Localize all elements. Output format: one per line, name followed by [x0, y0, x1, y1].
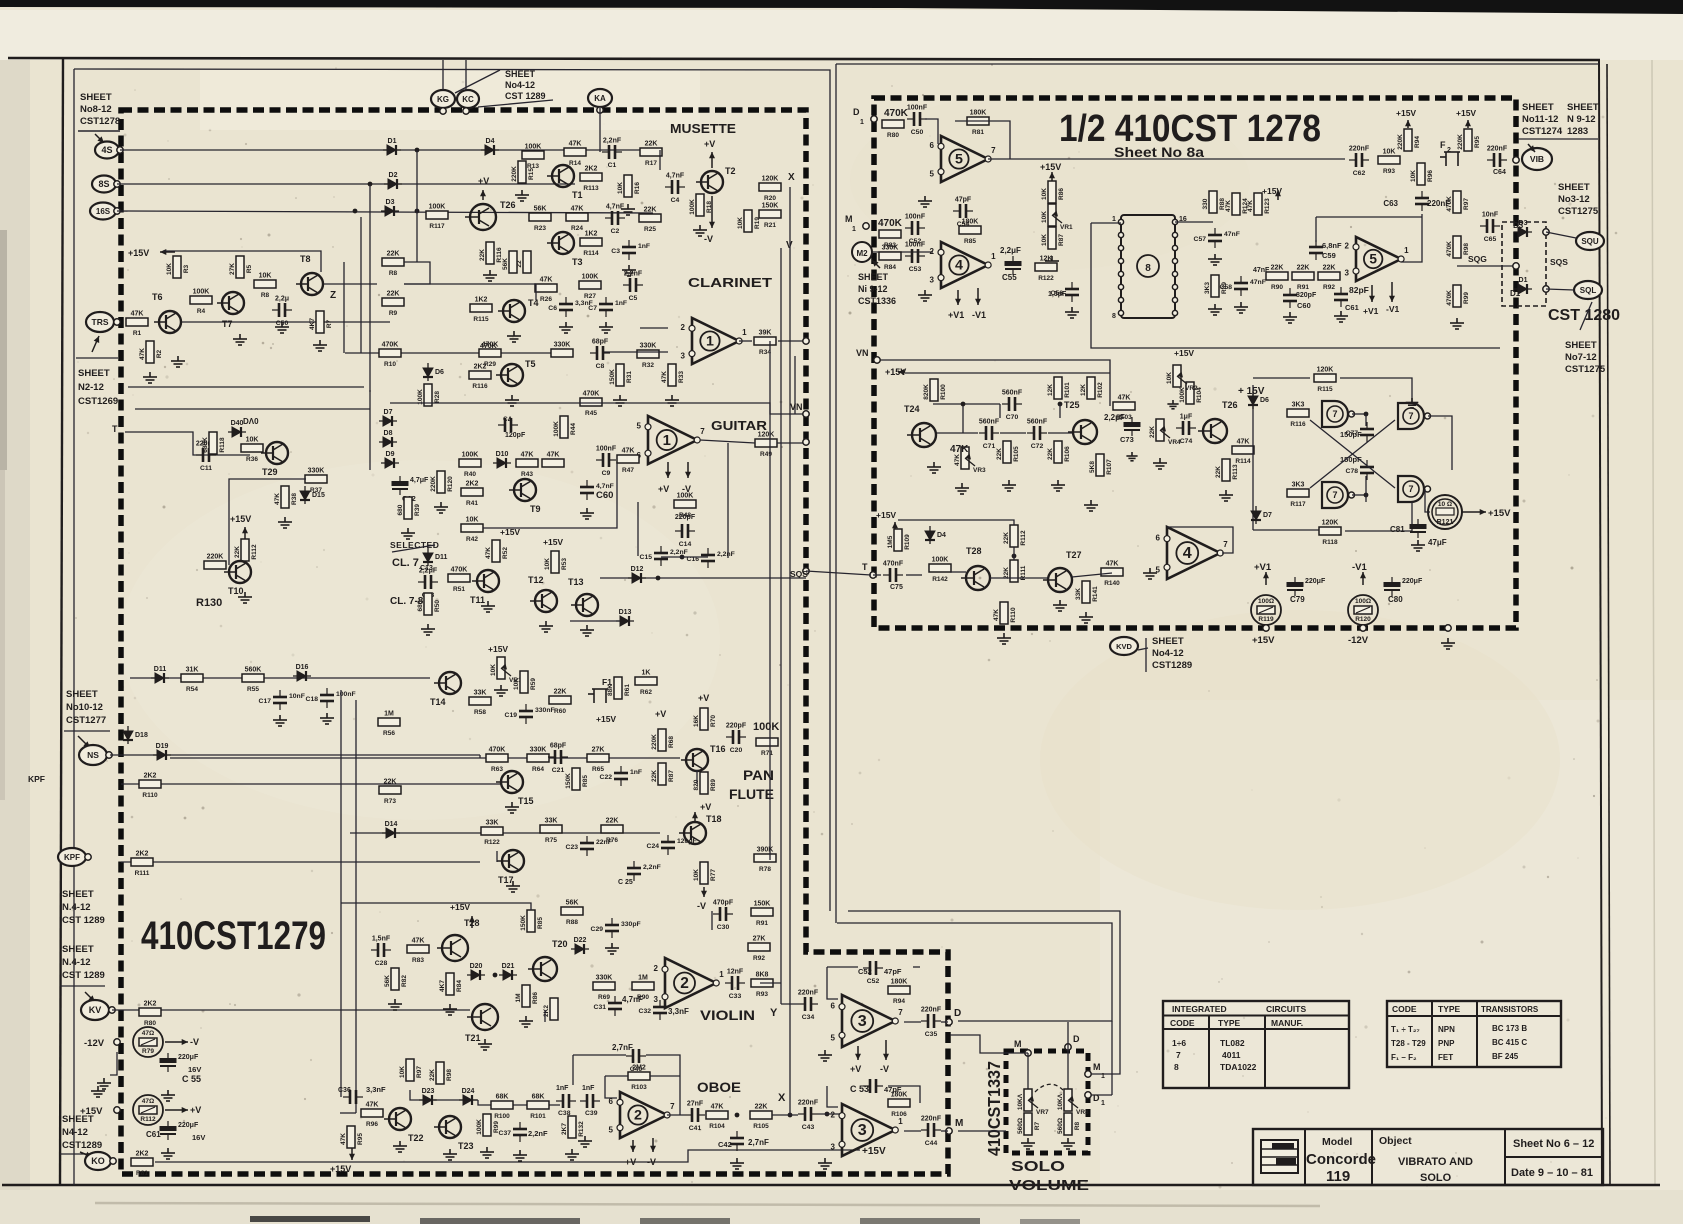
svg-text:R85: R85 [964, 238, 976, 245]
wire [1145, 638, 1147, 672]
svg-text:Sheet Nо 6 – 12: Sheet Nо 6 – 12 [1513, 1138, 1594, 1150]
ground [507, 331, 521, 342]
svg-text:T9: T9 [530, 504, 541, 514]
svg-text:KPF: KPF [64, 853, 80, 862]
svg-text:R21: R21 [764, 222, 776, 229]
resistor R39 [397, 497, 421, 519]
svg-text:10K: 10K [466, 517, 479, 524]
arrow -V [652, 1138, 654, 1152]
resistor R33 [661, 364, 685, 386]
resistor R94 [1397, 129, 1421, 151]
svg-text:+V: +V [478, 176, 489, 186]
svg-text:T27: T27 [1066, 550, 1082, 560]
svg-text:1nF: 1nF [556, 1085, 569, 1092]
resistor R101 [527, 1094, 549, 1121]
svg-text:7: 7 [1408, 411, 1413, 421]
svg-text:7: 7 [898, 1008, 903, 1017]
svg-text:120K: 120K [1322, 520, 1339, 527]
svg-text:-12V: -12V [1348, 635, 1369, 646]
node [1118, 232, 1123, 237]
arrow [95, 134, 104, 143]
svg-text:220K: 220K [207, 554, 224, 561]
wire [637, 502, 639, 556]
transistor T25 [1064, 400, 1097, 444]
ground [238, 592, 252, 603]
diode D13 [616, 616, 634, 626]
svg-text:R45: R45 [585, 410, 597, 417]
node [597, 107, 603, 113]
capacitor C40 [626, 1049, 646, 1063]
wire [659, 150, 661, 170]
junction [415, 209, 420, 214]
resistor R77 [693, 862, 717, 884]
resistor R29 [479, 342, 501, 369]
svg-text:R93: R93 [1383, 168, 1395, 175]
junction [788, 1113, 793, 1118]
trimmer VR4 [1149, 419, 1181, 446]
capacitor C1 [602, 145, 622, 159]
svg-text:D16: D16 [296, 664, 309, 671]
resistor R8 [382, 251, 404, 278]
svg-text:47μF: 47μF [1428, 538, 1447, 547]
capacitor [883, 568, 903, 582]
svg-text:1μF: 1μF [1180, 414, 1193, 421]
svg-text:22K: 22K [234, 546, 241, 558]
node [1172, 219, 1177, 224]
svg-text:330K: 330K [882, 245, 899, 252]
svg-text:R89: R89 [710, 779, 717, 791]
svg-text:T8: T8 [300, 254, 311, 264]
transistor T26 [1198, 400, 1238, 443]
capacitor C17 [273, 690, 287, 710]
svg-text:M2: M2 [856, 249, 868, 258]
svg-text:2,2nF: 2,2nF [717, 551, 735, 558]
svg-text:3: 3 [858, 1121, 867, 1139]
svg-text:T7: T7 [222, 319, 233, 329]
wire [941, 1021, 948, 1023]
svg-text:R27: R27 [584, 293, 596, 300]
svg-text:1nF: 1nF [638, 243, 650, 250]
svg-text:CLARINET: CLARINET [688, 275, 772, 290]
capacitor C57 [1208, 228, 1222, 248]
wire [1091, 222, 1121, 224]
svg-text:220nF: 220nF [1487, 146, 1508, 153]
resistor R49 [755, 432, 777, 459]
wire [404, 262, 430, 284]
svg-text:22K: 22K [1149, 426, 1156, 438]
dashed border 410CST1279 box [121, 110, 948, 1174]
ground [481, 601, 495, 612]
resistor R100 [491, 1094, 513, 1121]
svg-text:1M: 1M [384, 711, 394, 718]
svg-text:47K: 47K [622, 448, 635, 455]
svg-text:+15V: +15V [1488, 508, 1511, 519]
wire [913, 966, 920, 968]
svg-text:R91: R91 [1297, 284, 1309, 291]
dashed coupling arc [1035, 1084, 1063, 1092]
resistor R54 [181, 667, 203, 694]
svg-text:-V: -V [647, 1157, 656, 1167]
svg-text:119: 119 [1326, 1168, 1350, 1185]
node [1118, 219, 1123, 224]
resistor R89 [1204, 275, 1228, 297]
wire [1352, 413, 1366, 415]
resistor R21 [759, 203, 781, 230]
svg-text:MANUF.: MANUF. [1271, 1018, 1303, 1028]
svg-text:16S: 16S [96, 207, 111, 216]
wire [60, 985, 105, 987]
svg-text:R92: R92 [1323, 284, 1335, 291]
capacitor [1410, 519, 1426, 538]
svg-text:150K: 150K [609, 369, 616, 385]
connector KV [81, 1000, 109, 1020]
svg-text:MUSETTE: MUSETTE [670, 121, 736, 136]
svg-text:820K: 820K [923, 384, 930, 400]
resistor R85 [565, 768, 589, 790]
svg-text:10K: 10K [1166, 372, 1173, 384]
wire 8S row [117, 183, 575, 185]
svg-text:R120: R120 [1355, 616, 1371, 623]
svg-text:47K: 47K [1237, 439, 1250, 446]
svg-text:T11: T11 [470, 595, 485, 605]
svg-text:R8: R8 [261, 292, 270, 299]
svg-text:470K: 470K [1446, 290, 1453, 306]
ground [1441, 638, 1455, 649]
svg-text:T15: T15 [518, 796, 534, 806]
svg-text:100Ω: 100Ω [1355, 598, 1371, 605]
ground [955, 483, 969, 494]
transistor T2 [696, 166, 736, 193]
ground [505, 802, 519, 813]
svg-text:10nF: 10nF [289, 693, 305, 700]
svg-text:R87: R87 [1058, 234, 1065, 246]
svg-text:1: 1 [1112, 216, 1116, 223]
svg-text:10K: 10K [1041, 211, 1048, 223]
wire [727, 443, 729, 558]
svg-text:C34: C34 [802, 1014, 815, 1021]
ground [599, 322, 613, 333]
svg-text:N4-12: N4-12 [62, 1127, 88, 1138]
node [1085, 1071, 1091, 1077]
svg-text:R111: R111 [135, 870, 150, 877]
transistor F [1440, 152, 1460, 166]
capacitor C24 [661, 835, 675, 855]
svg-text:R114: R114 [583, 250, 599, 257]
svg-text:3K3: 3K3 [1292, 482, 1305, 489]
wire [777, 442, 806, 444]
wire stub b [416, 150, 418, 262]
svg-text:R62: R62 [640, 689, 652, 696]
svg-text:D21: D21 [502, 963, 515, 970]
svg-text:220K: 220K [1397, 134, 1404, 150]
wire [906, 574, 922, 576]
wire [60, 1153, 104, 1155]
wire [1090, 1094, 1112, 1096]
capacitor C52 [905, 221, 925, 235]
resistor R42 [461, 517, 483, 544]
svg-text:-V1: -V1 [1386, 304, 1400, 314]
svg-text:C13: C13 [420, 565, 433, 572]
svg-text:C35: C35 [925, 1031, 938, 1038]
svg-text:TL082: TL082 [1220, 1038, 1245, 1048]
svg-text:+15V: +15V [596, 714, 616, 724]
node [1172, 258, 1177, 263]
node [1172, 310, 1177, 315]
svg-text:1M: 1M [515, 993, 522, 1002]
svg-text:T14: T14 [430, 697, 446, 707]
svg-text:10KΛ: 10KΛ [1057, 1093, 1064, 1110]
svg-text:180K: 180K [891, 1092, 908, 1099]
resistor R96 [361, 1102, 383, 1129]
ground [622, 265, 636, 276]
svg-text:560K: 560K [245, 667, 262, 674]
svg-text:150K: 150K [520, 915, 527, 931]
svg-text:R103: R103 [1116, 414, 1132, 421]
svg-text:12K: 12K [1047, 384, 1054, 396]
svg-text:1: 1 [860, 119, 864, 126]
arrow +V1 [957, 290, 959, 305]
node [1172, 245, 1177, 250]
svg-text:1K2: 1K2 [475, 297, 488, 304]
svg-text:R33: R33 [678, 371, 685, 383]
svg-text:SQS: SQS [790, 569, 808, 579]
svg-text:SHEET: SHEET [80, 92, 112, 103]
svg-text:10K: 10K [1383, 149, 1396, 156]
svg-text:47K: 47K [954, 454, 961, 466]
svg-text:CST1274: CST1274 [1522, 126, 1563, 137]
node [1513, 157, 1519, 163]
svg-text:+V1: +V1 [1363, 306, 1379, 316]
svg-text:R115: R115 [473, 316, 489, 323]
capacitor C71 [979, 426, 999, 440]
svg-text:T22: T22 [408, 1133, 424, 1143]
svg-text:47K: 47K [1106, 561, 1119, 568]
svg-text:T: T [112, 424, 118, 434]
svg-text:R3: R3 [183, 264, 190, 273]
svg-text:R20: R20 [764, 195, 776, 202]
svg-text:47K: 47K [139, 348, 146, 360]
svg-text:R96: R96 [1427, 170, 1434, 182]
svg-text:-V: -V [190, 1037, 199, 1047]
wire [818, 1113, 842, 1115]
ground [388, 999, 402, 1010]
node [1118, 284, 1123, 289]
svg-text:OBOE: OBOE [697, 1079, 741, 1095]
capacitor C18 [320, 688, 334, 708]
svg-text:FLUTE: FLUTE [729, 787, 774, 802]
node [1445, 625, 1451, 631]
svg-text:D15: D15 [312, 492, 325, 499]
svg-text:47K: 47K [1118, 395, 1131, 402]
svg-text:R54: R54 [186, 686, 198, 693]
wire [1253, 529, 1330, 531]
svg-text:R24: R24 [571, 225, 583, 232]
svg-text:+V1: +V1 [948, 310, 964, 320]
resistor R94 [888, 979, 910, 1006]
svg-text:C23: C23 [566, 844, 579, 851]
svg-text:-V: -V [704, 234, 713, 244]
wire [711, 911, 713, 930]
ground [91, 1086, 105, 1097]
resistor R93 [1378, 149, 1400, 176]
resistor R41 [461, 481, 483, 508]
capacitor C32 [653, 1000, 667, 1020]
svg-text:7: 7 [670, 1102, 675, 1111]
svg-text:5: 5 [1369, 251, 1377, 266]
capacitor C50 [907, 112, 927, 126]
capacitor C9 [596, 453, 616, 467]
svg-text:C44: C44 [925, 1140, 938, 1147]
svg-text:INTEGRATED: INTEGRATED [1172, 1004, 1227, 1014]
resistor R110 [139, 773, 161, 800]
capacitor C74 [1176, 421, 1196, 435]
svg-text:100K: 100K [476, 1119, 483, 1135]
capacitor [1487, 153, 1507, 167]
ground [434, 502, 448, 513]
svg-text:47K: 47K [547, 452, 560, 459]
svg-text:47K: 47K [569, 141, 582, 148]
svg-text:R105: R105 [1013, 446, 1020, 462]
svg-text:+15V: +15V [862, 1146, 886, 1157]
svg-text:7: 7 [991, 146, 996, 155]
svg-text:3K3: 3K3 [1292, 402, 1305, 409]
svg-text:-V: -V [697, 901, 706, 911]
svg-text:10K: 10K [617, 182, 624, 194]
svg-text:D6: D6 [1260, 397, 1269, 404]
ground [1045, 256, 1059, 267]
capacitor C33 [725, 976, 745, 990]
wire D1 riser [1111, 1021, 1113, 1095]
transistor T7 [217, 292, 244, 329]
svg-text:F: F [1440, 140, 1446, 150]
svg-text:150K: 150K [762, 203, 779, 210]
resistor R47 [617, 448, 639, 475]
wire [455, 70, 500, 93]
wire [999, 404, 1001, 418]
svg-text:1283: 1283 [1567, 126, 1588, 137]
resistor R88 [1202, 191, 1226, 213]
capacitor [580, 1094, 600, 1108]
node [1085, 1092, 1091, 1098]
svg-text:220nF: 220nF [921, 1007, 942, 1014]
svg-text:C59: C59 [1322, 251, 1336, 260]
resistor R64 [527, 747, 549, 774]
svg-text:R16: R16 [634, 182, 641, 194]
svg-text:22K: 22K [996, 448, 1003, 460]
svg-text:T5: T5 [525, 359, 536, 369]
svg-text:C5: C5 [629, 295, 638, 302]
title block [1253, 1129, 1603, 1185]
svg-text:KO: KO [91, 1156, 105, 1166]
svg-text:47K: 47K [366, 1102, 379, 1109]
svg-text:CST1336: CST1336 [858, 296, 896, 306]
svg-text:D: D [954, 1008, 961, 1019]
wire [937, 432, 978, 434]
svg-text:R112: R112 [1020, 530, 1027, 546]
svg-text:NPN: NPN [1438, 1025, 1455, 1034]
node [1513, 263, 1519, 269]
resistor R121 lamp [1428, 495, 1462, 529]
op-amp U2 oboe [609, 1092, 676, 1138]
resistor R71 [756, 738, 778, 757]
op-amp U4 upper [930, 242, 997, 288]
wire [496, 851, 498, 862]
ground [559, 322, 573, 333]
svg-text:22K: 22K [429, 1069, 436, 1081]
wire VN [877, 360, 1110, 406]
svg-text:C30: C30 [717, 924, 730, 931]
svg-text:470K: 470K [451, 567, 468, 574]
op-amp U3 upper [831, 995, 904, 1047]
resistor R14 [564, 141, 586, 168]
arrow [694, 812, 696, 822]
svg-text:CST1289: CST1289 [62, 1140, 102, 1151]
svg-text:1,5μF: 1,5μF [1048, 291, 1067, 298]
svg-text:22K: 22K [755, 1104, 768, 1111]
wire +15V rail T8 [163, 251, 321, 272]
node [1118, 245, 1123, 250]
svg-text:C4: C4 [671, 197, 680, 204]
svg-text:100nF: 100nF [907, 105, 928, 112]
diode D12 [628, 573, 646, 583]
svg-text:3: 3 [654, 995, 659, 1004]
capacitor C58 [1234, 276, 1248, 296]
svg-text:C60: C60 [1297, 301, 1311, 310]
svg-text:820pF: 820pF [1296, 292, 1317, 299]
wire [1345, 502, 1412, 531]
node [946, 1128, 952, 1134]
transistor T29 [261, 442, 288, 477]
arrow [894, 522, 896, 530]
svg-text:D1: D1 [1519, 277, 1528, 284]
resistor R56 [378, 711, 400, 738]
svg-text:1: 1 [852, 226, 856, 233]
svg-text:R14: R14 [569, 160, 581, 167]
wire elbow A [848, 911, 1120, 1074]
svg-text:47K: 47K [993, 609, 1000, 621]
resistor R36 [241, 437, 263, 464]
svg-text:10K: 10K [1041, 188, 1048, 200]
svg-text:R7: R7 [326, 319, 333, 328]
svg-text:82pF: 82pF [1349, 285, 1369, 295]
svg-text:100K: 100K [753, 721, 779, 733]
wire [1138, 648, 1148, 650]
svg-text:10K: 10K [246, 437, 259, 444]
svg-text:3,3nF: 3,3nF [366, 1085, 386, 1094]
svg-text:56K: 56K [384, 975, 391, 987]
resistor R92 [748, 936, 770, 963]
svg-text:F₁ – F₂: F₁ – F₂ [1391, 1053, 1417, 1062]
node [1118, 297, 1123, 302]
svg-text:22K: 22K [1003, 567, 1010, 579]
junction [493, 973, 498, 978]
transistor T3 [547, 232, 583, 267]
svg-text:4: 4 [1183, 544, 1192, 562]
svg-text:T24: T24 [904, 404, 920, 414]
transistor T10 [224, 561, 251, 596]
svg-text:1: 1 [719, 970, 724, 979]
capacitor C14 [675, 524, 695, 538]
connector KA [588, 89, 612, 107]
svg-text:R106: R106 [1064, 446, 1071, 462]
svg-text:4: 4 [955, 258, 963, 274]
resistor R13 [522, 144, 544, 171]
wire [322, 283, 377, 285]
junction [961, 402, 966, 407]
wire [572, 1055, 574, 1085]
capacitor C34 [798, 997, 818, 1011]
svg-text:1: 1 [1101, 1073, 1105, 1080]
